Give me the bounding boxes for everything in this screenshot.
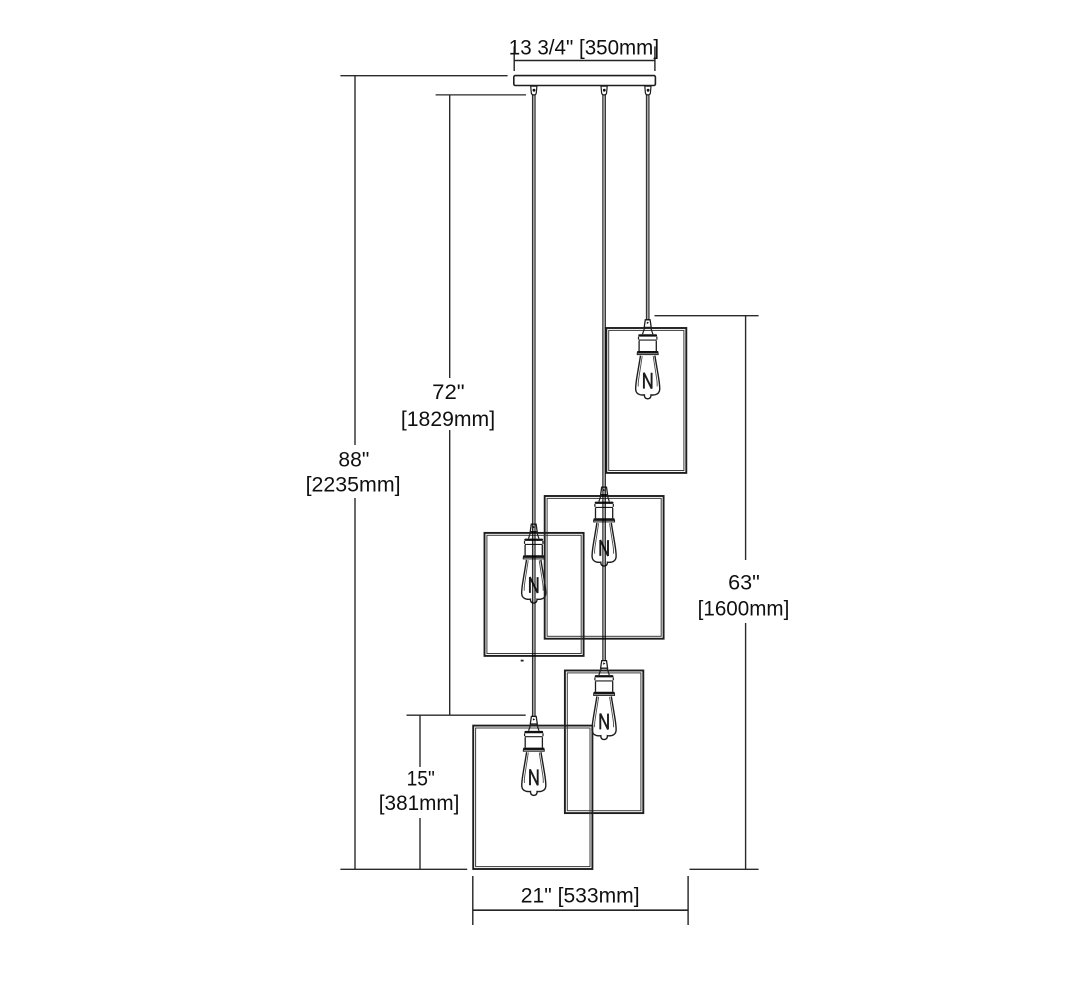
- dimension line 13 3/4: [514, 60, 655, 62]
- bottom extension line right: [690, 868, 759, 870]
- 88 dimension line upper: [354, 76, 356, 445]
- cord 3 (canopy to B1): [646, 95, 649, 320]
- svg-text:[2235mm]: [2235mm]: [306, 473, 401, 496]
- 63 extension line top: [655, 315, 759, 317]
- canopy cord grip middle: [601, 86, 607, 95]
- 15 dimension line upper: [419, 715, 421, 767]
- 72 extension line: [436, 94, 526, 96]
- canopy mounting plate: [514, 76, 656, 86]
- bulb B5 (in frame P5): [522, 716, 546, 795]
- bulb B4 (in frame P4): [592, 661, 616, 740]
- 15 dimension line lower: [419, 818, 421, 869]
- svg-text:21" [533mm]: 21" [533mm]: [521, 884, 640, 907]
- svg-text:15": 15": [407, 768, 435, 791]
- 72 dimension line upper: [449, 95, 451, 378]
- svg-text:[381mm]: [381mm]: [379, 792, 460, 815]
- pendant frame P1 (top right): [606, 328, 686, 473]
- pendant frame P4 (bottom middle): [565, 671, 643, 814]
- dimension 13 3/4 extension tick left: [513, 46, 515, 71]
- svg-text:72": 72": [432, 381, 465, 404]
- bulb B3 (in frame P3): [522, 524, 546, 603]
- 63 dimension line lower: [745, 623, 747, 869]
- 15/72 shared extension line: [407, 714, 526, 716]
- bulb B2 (in frame P2): [592, 487, 616, 566]
- pendant frame P5 (bottom left): [473, 726, 592, 869]
- cord 1 (canopy to B5): [533, 95, 536, 717]
- svg-text:[1829mm]: [1829mm]: [401, 408, 495, 431]
- canopy cord grip left: [531, 86, 537, 95]
- cord 2 (canopy to B4): [603, 95, 606, 661]
- 63 dimension line upper: [745, 316, 747, 560]
- svg-text:13 3/4" [350mm]: 13 3/4" [350mm]: [509, 36, 659, 59]
- bulb B1 (in frame P1): [636, 320, 660, 399]
- stray mark under frame P3: [521, 660, 524, 662]
- dimension line 21: [473, 909, 688, 911]
- canopy cord grip right: [645, 86, 651, 95]
- 88 extension line top: [340, 75, 507, 77]
- 21 extension tick left: [472, 876, 474, 925]
- pendant frame P2 (middle): [545, 496, 664, 639]
- svg-text:88": 88": [338, 449, 369, 472]
- bottom extension line left: [340, 868, 467, 870]
- svg-text:[1600mm]: [1600mm]: [698, 598, 790, 621]
- pendant frame P3 (middle left): [485, 533, 584, 656]
- dimension 13 3/4 extension tick right: [654, 46, 656, 71]
- 21 extension tick right: [687, 876, 689, 925]
- svg-text:63": 63": [728, 571, 760, 594]
- 72 dimension line lower: [449, 430, 451, 715]
- 88 dimension line lower: [354, 498, 356, 869]
